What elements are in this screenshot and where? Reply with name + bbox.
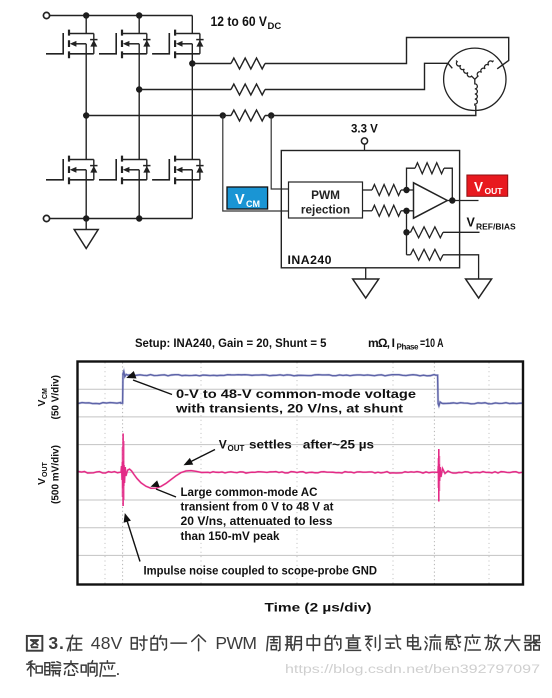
wire VREF/BIAS pin <box>443 231 480 233</box>
wire kelvin right to PWM in1 <box>271 116 288 190</box>
wire phase C to shunt <box>192 63 231 65</box>
wire to op-amp minus <box>401 210 414 212</box>
svg-text:3.: 3. <box>48 633 64 653</box>
transistor Q4 <box>46 156 98 185</box>
svg-text:INA240: INA240 <box>288 253 332 267</box>
resistor shunt R3 <box>223 115 231 117</box>
wire source lead Q4 <box>85 170 87 219</box>
svg-text:rejection: rejection <box>301 203 350 217</box>
ground G2 <box>353 279 379 298</box>
wire PWM out lower <box>363 210 373 212</box>
junction phase A tap <box>83 112 89 118</box>
junction op-amp minus <box>403 208 409 214</box>
label box VCM <box>227 187 268 209</box>
wire feedback down <box>444 168 452 200</box>
svg-text:REF/BIAS: REF/BIAS <box>476 221 516 231</box>
junction top bus A <box>83 12 89 18</box>
junction op-amp plus <box>403 187 409 193</box>
wire phase A vertical <box>85 44 87 160</box>
junction shunt R3 kelvin left <box>220 112 226 118</box>
wire phase A to motor <box>265 105 476 115</box>
wire phase B vertical <box>138 44 140 160</box>
svg-text:12 to 60 V: 12 to 60 V <box>211 14 268 29</box>
svg-text:3.3 V: 3.3 V <box>351 124 378 136</box>
wire phase B to motor <box>265 63 452 89</box>
junction ref node <box>403 229 409 235</box>
svg-text:DC: DC <box>268 21 282 32</box>
chart border <box>78 362 524 585</box>
svg-text:0-V to 48-V common-mode voltag: 0-V to 48-V common-mode voltage <box>176 387 416 401</box>
op-amp block INA240 box <box>281 151 459 268</box>
svg-text:V: V <box>219 438 227 452</box>
svg-text:OUT: OUT <box>485 186 504 196</box>
svg-text:OUT: OUT <box>228 444 245 453</box>
arrow to rise edge <box>133 380 172 395</box>
svg-text:Phase: Phase <box>397 342 420 351</box>
svg-text:transient from 0 V to 48 V at: transient from 0 V to 48 V at <box>181 500 334 514</box>
axis label VCM <box>36 375 62 419</box>
chart grid <box>79 389 523 555</box>
junction phase B tap <box>136 86 142 92</box>
svg-text:than 150-mV peak: than 150-mV peak <box>181 529 280 543</box>
node DC- terminal <box>43 215 49 221</box>
resistor input R5 <box>372 205 401 216</box>
wire phase C to motor <box>265 38 509 69</box>
wire ground stub <box>85 219 87 230</box>
svg-text:PWM: PWM <box>215 633 257 653</box>
wire bottom DC bus <box>50 218 193 220</box>
resistor ref R7 <box>407 231 411 233</box>
resistor shunt R1 <box>231 58 265 69</box>
transistor Q5 <box>99 156 151 185</box>
junction output node <box>449 197 455 203</box>
wire source lead Q5 <box>138 170 140 219</box>
svg-text:V: V <box>467 216 476 230</box>
wire op-amp output <box>447 200 478 202</box>
svg-text:20 V/ns, attenuated to less: 20 V/ns, attenuated to less <box>181 514 333 528</box>
svg-text:Time (2 µs/div): Time (2 µs/div) <box>265 601 372 615</box>
svg-text:CM: CM <box>246 199 260 209</box>
block PWM rejection <box>289 182 363 218</box>
svg-text:with transients, 20 V/ns, at s: with transients, 20 V/ns, at shunt <box>175 402 403 416</box>
junction bottom bus B <box>136 215 142 221</box>
svg-text:Large common-mode AC: Large common-mode AC <box>181 485 318 499</box>
transistor Q6 <box>152 156 204 185</box>
svg-text:(500 mV/div): (500 mV/div) <box>51 445 62 504</box>
wire drain lead Q3 <box>191 16 193 34</box>
wire ref to ground <box>443 255 479 279</box>
resistor input R4 <box>372 185 401 196</box>
wire drain lead Q1 <box>85 16 87 34</box>
resistor shunt R2 <box>231 84 265 95</box>
trace VOUT pink <box>79 461 523 488</box>
wire top DC bus <box>50 15 193 17</box>
junction shunt R3 kelvin right <box>268 112 274 118</box>
svg-text:settles after~25 µs: settles after~25 µs <box>249 438 374 452</box>
svg-text:V: V <box>235 192 245 208</box>
svg-text:(50 V/div): (50 V/div) <box>51 375 62 419</box>
trigger cursor lines <box>123 363 435 584</box>
svg-text:48V: 48V <box>91 633 123 653</box>
wire 3.3V stub <box>364 144 366 150</box>
wire feedback up <box>407 168 416 190</box>
label box VOUT <box>467 175 508 196</box>
node DC+ terminal <box>43 12 49 18</box>
wire INA240 ground stub <box>365 268 367 279</box>
wire PWM out upper <box>363 189 373 191</box>
wire phase B to shunt <box>139 89 231 91</box>
wire to op-amp plus <box>401 189 414 191</box>
wire phase C vertical <box>191 44 193 160</box>
trace VOUT impulse spikes <box>122 434 124 507</box>
motor M1 <box>444 48 506 110</box>
svg-text:.: . <box>116 659 121 679</box>
trace VCM blue <box>79 371 523 405</box>
arrow to settle point <box>189 450 215 463</box>
wire ref node down <box>406 232 408 255</box>
svg-text:OUT: OUT <box>42 462 49 478</box>
caption figure 3 <box>27 636 42 651</box>
svg-text:CM: CM <box>42 388 49 399</box>
junction phase C tap <box>189 60 195 66</box>
resistor ref R8 <box>407 254 411 256</box>
wire source lead Q6 <box>191 170 193 219</box>
svg-text:mΩ, I: mΩ, I <box>368 336 395 350</box>
arrow to dip <box>156 489 176 497</box>
ground G1 <box>74 230 98 249</box>
axis label VOUT <box>36 445 62 504</box>
resistor feedback R6 <box>415 163 444 174</box>
ground G3 <box>466 279 492 298</box>
wire kelvin left to PWM in2 <box>223 116 289 212</box>
op-amp U1 <box>414 183 448 218</box>
wire phase A to shunt <box>86 115 223 117</box>
svg-text:https://blog.csdn.net/ben39279: https://blog.csdn.net/ben392797097 <box>285 662 540 676</box>
transistor Q2 <box>99 30 151 59</box>
svg-text:V: V <box>36 478 48 485</box>
arrow to impulse <box>127 519 141 562</box>
transistor Q3 <box>152 30 204 59</box>
svg-text:=10 A: =10 A <box>420 336 444 350</box>
svg-text:V: V <box>36 399 48 406</box>
svg-text:PWM: PWM <box>311 188 340 202</box>
transistor Q1 <box>46 30 98 59</box>
junction bottom bus A <box>83 215 89 221</box>
svg-text:Impulse noise coupled to scope: Impulse noise coupled to scope-probe GND <box>144 564 378 578</box>
wire minus to ref node <box>406 211 408 233</box>
svg-text:V: V <box>474 180 483 195</box>
svg-text:Setup: INA240, Gain = 20, Shun: Setup: INA240, Gain = 20, Shunt = 5 <box>135 336 327 350</box>
junction top bus B <box>136 12 142 18</box>
wire drain lead Q2 <box>138 16 140 34</box>
